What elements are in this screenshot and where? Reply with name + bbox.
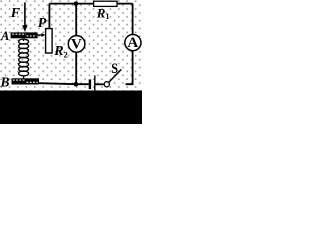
svg-text:F: F <box>10 6 21 21</box>
svg-text:P: P <box>38 16 47 31</box>
svg-text:A: A <box>0 29 9 43</box>
wire top rail <box>49 3 132 5</box>
wire bottom left <box>39 83 89 84</box>
plate bar A <box>11 32 38 38</box>
resistor R2 <box>46 29 53 53</box>
slider arrow P <box>37 34 42 36</box>
wire right rail lower <box>126 51 133 84</box>
ammeter A <box>125 35 141 51</box>
spring <box>19 39 29 79</box>
wire battery to switch <box>96 83 105 85</box>
plate bar B <box>12 78 40 84</box>
svg-text:V: V <box>71 37 82 53</box>
force arrow F <box>24 2 26 26</box>
svg-text:B: B <box>0 74 10 89</box>
wire left branch down to R2 <box>48 4 50 29</box>
voltmeter V <box>68 36 85 53</box>
wire voltmeter branch lower <box>75 52 77 84</box>
svg-text:S: S <box>111 61 118 77</box>
battery cell <box>89 79 91 89</box>
wire voltmeter branch upper <box>75 4 77 36</box>
svg-text:A: A <box>127 35 138 51</box>
resistor R1 <box>94 1 117 6</box>
wire right rail upper <box>132 4 134 35</box>
black base band <box>0 91 142 125</box>
switch S <box>104 82 109 87</box>
node bottom junction <box>74 82 79 87</box>
background <box>0 0 142 124</box>
node top junction <box>74 1 79 6</box>
